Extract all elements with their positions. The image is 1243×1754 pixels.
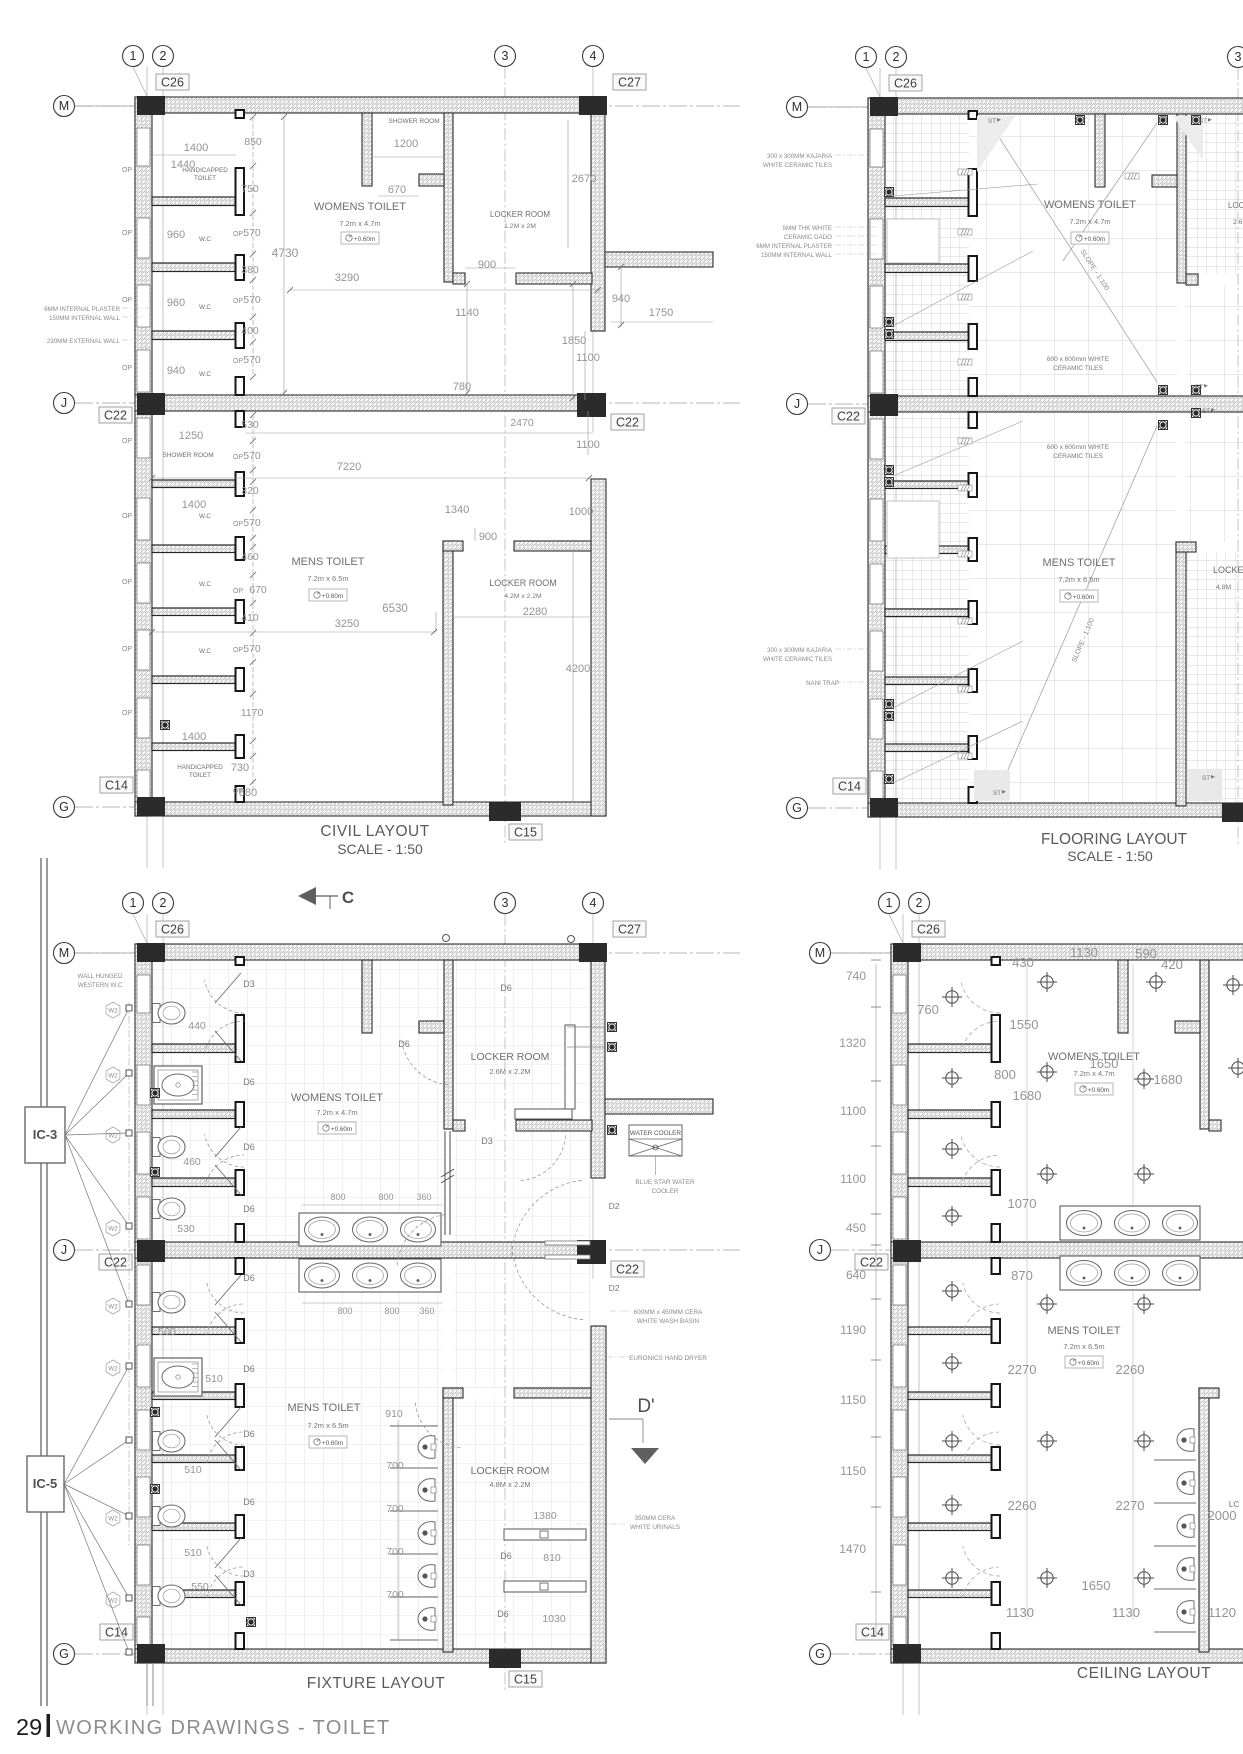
svg-text:400: 400 — [241, 325, 259, 337]
svg-text:ST: ST — [993, 790, 1001, 797]
svg-text:+0.60m: +0.60m — [1084, 236, 1105, 243]
svg-text:J: J — [61, 1243, 67, 1257]
margin notes (flooring) — [756, 153, 884, 687]
svg-text:4: 4 — [590, 49, 597, 63]
svg-text:1380: 1380 — [533, 1510, 557, 1522]
svg-text:800: 800 — [378, 1192, 393, 1202]
svg-text:410: 410 — [241, 612, 259, 624]
svg-text:OP: OP — [122, 230, 132, 237]
svg-text:800: 800 — [384, 1306, 399, 1316]
door thresholds (flooring) — [958, 169, 1139, 759]
svg-text:1470: 1470 — [839, 1542, 866, 1556]
svg-text:W.C: W.C — [199, 304, 211, 311]
svg-text:WALL HUNGED: WALL HUNGED — [78, 973, 123, 980]
svg-text:1190: 1190 — [840, 1323, 866, 1337]
section marker C (fixture) — [298, 887, 354, 909]
svg-text:2280: 2280 — [523, 606, 547, 618]
svg-text:SHOWER ROOM: SHOWER ROOM — [388, 118, 439, 125]
svg-text:ST: ST — [988, 118, 996, 125]
walls (ceiling) — [891, 944, 1243, 1663]
svg-text:D6: D6 — [243, 1497, 255, 1507]
svg-text:C27: C27 — [618, 923, 641, 937]
svg-text:W2: W2 — [108, 1304, 118, 1311]
toilets (fixture) — [153, 1002, 203, 1607]
slope lines (flooring) — [974, 116, 1222, 801]
walls (flooring) — [868, 98, 1243, 817]
svg-text:150MM INTERNAL WALL: 150MM INTERNAL WALL — [761, 252, 833, 259]
svg-text:D3: D3 — [481, 1136, 493, 1146]
svg-text:WOMENS TOILET: WOMENS TOILET — [1044, 199, 1136, 211]
svg-text:1400: 1400 — [184, 142, 208, 154]
svg-text:G: G — [815, 1647, 825, 1661]
svg-text:960: 960 — [167, 229, 185, 241]
svg-text:700: 700 — [386, 1546, 404, 1558]
svg-text:D6: D6 — [243, 1204, 255, 1214]
svg-text:OP: OP — [122, 167, 132, 174]
svg-text:G: G — [59, 800, 69, 814]
grid bubbles (ceiling) — [810, 893, 1243, 1665]
svg-text:750: 750 — [241, 183, 259, 195]
svg-text:W2: W2 — [108, 1008, 118, 1015]
svg-text:1130: 1130 — [1112, 1605, 1140, 1620]
svg-text:ST: ST — [1202, 408, 1210, 415]
svg-text:7.2m x 6.5m: 7.2m x 6.5m — [307, 574, 348, 583]
svg-text:2000: 2000 — [1208, 1508, 1237, 1523]
svg-text:570: 570 — [243, 227, 261, 239]
svg-text:WESTERN W.C: WESTERN W.C — [78, 982, 123, 989]
svg-text:1: 1 — [863, 50, 870, 64]
svg-text:150MM INTERNAL WALL: 150MM INTERNAL WALL — [49, 315, 121, 322]
svg-text:D6: D6 — [243, 1429, 255, 1439]
svg-text:3: 3 — [502, 49, 509, 63]
svg-text:D6: D6 — [500, 1551, 512, 1561]
svg-text:780: 780 — [453, 381, 471, 393]
svg-text:+0.60m: +0.60m — [1078, 1360, 1099, 1367]
wash basins (fixture) — [299, 1213, 441, 1292]
svg-text:430: 430 — [1012, 955, 1034, 970]
svg-text:ST: ST — [1199, 118, 1207, 125]
footer page title — [16, 1714, 391, 1740]
svg-text:2.6M x 2.2M: 2.6M x 2.2M — [489, 1067, 530, 1076]
svg-text:C26: C26 — [917, 923, 940, 937]
svg-text:1000: 1000 — [569, 506, 593, 518]
svg-text:510: 510 — [184, 1464, 202, 1476]
door jambs (civil) — [236, 110, 245, 802]
svg-text:590: 590 — [1135, 946, 1157, 961]
svg-text:C26: C26 — [894, 77, 917, 91]
svg-text:OP: OP — [233, 454, 243, 461]
svg-text:WORKING DRAWINGS - TOILET: WORKING DRAWINGS - TOILET — [56, 1717, 391, 1739]
svg-text:1030: 1030 — [542, 1613, 566, 1625]
drain leaders (flooring) — [893, 184, 1038, 783]
svg-text:1200: 1200 — [394, 138, 418, 150]
title (civil) — [320, 823, 429, 857]
ST markers (flooring) — [988, 118, 1215, 797]
svg-text:OP: OP — [122, 438, 132, 445]
svg-text:700: 700 — [386, 1589, 404, 1601]
svg-text:600 x 600mm WHITE: 600 x 600mm WHITE — [1047, 356, 1110, 363]
svg-text:570: 570 — [243, 294, 261, 306]
svg-text:D6: D6 — [243, 1364, 255, 1374]
room labels (civil) — [162, 118, 556, 779]
svg-text:OP: OP — [233, 588, 243, 595]
svg-text:1340: 1340 — [445, 504, 469, 516]
svg-text:C22: C22 — [837, 410, 860, 424]
svg-text:1170: 1170 — [241, 707, 264, 719]
svg-text:WOMENS TOILET: WOMENS TOILET — [314, 201, 406, 213]
dimension texts (civil) — [167, 136, 673, 799]
labels (ceiling) — [917, 945, 1239, 1620]
svg-text:D6: D6 — [398, 1039, 410, 1049]
svg-text:1750: 1750 — [649, 307, 673, 319]
svg-text:J: J — [794, 397, 800, 411]
svg-text:1140: 1140 — [455, 307, 479, 319]
svg-text:J: J — [61, 396, 67, 410]
svg-text:670: 670 — [249, 584, 267, 596]
svg-text:420: 420 — [1161, 957, 1183, 972]
OP labels (civil) — [122, 167, 132, 717]
svg-text:M: M — [59, 99, 69, 113]
svg-text:COOLER: COOLER — [652, 1188, 679, 1195]
svg-text:ST: ST — [1202, 775, 1210, 782]
svg-text:W.C: W.C — [199, 648, 211, 655]
svg-text:OP: OP — [233, 358, 243, 365]
svg-text:OP: OP — [233, 298, 243, 305]
corridor wall (fixture) — [129, 1002, 617, 1640]
grid bubbles (fixture) — [54, 893, 604, 1665]
svg-text:G: G — [792, 801, 802, 815]
svg-text:2670: 2670 — [572, 173, 596, 185]
left wall openings (ceiling) — [893, 975, 906, 1645]
svg-text:500: 500 — [158, 1326, 176, 1338]
svg-text:320: 320 — [241, 485, 259, 497]
svg-text:TOILET: TOILET — [189, 772, 211, 779]
svg-text:D2: D2 — [609, 1201, 620, 1211]
svg-text:230MM EXTERNAL WALL: 230MM EXTERNAL WALL — [47, 338, 121, 345]
svg-text:FIXTURE LAYOUT: FIXTURE LAYOUT — [307, 1675, 446, 1692]
svg-text:SCALE - 1:50: SCALE - 1:50 — [337, 841, 423, 857]
svg-text:7.2m x 4.7m: 7.2m x 4.7m — [1069, 217, 1110, 226]
svg-text:530: 530 — [241, 419, 259, 431]
svg-text:2: 2 — [160, 49, 167, 63]
svg-text:OP: OP — [233, 647, 243, 654]
svg-text:1120: 1120 — [1208, 1605, 1236, 1620]
svg-text:300 x 300MM KAJARIA: 300 x 300MM KAJARIA — [767, 647, 833, 654]
svg-text:2470: 2470 — [510, 417, 534, 429]
grid label boxes (ceiling) — [855, 921, 945, 1640]
svg-text:2.6M x: 2.6M x — [1233, 219, 1243, 226]
svg-text:7.2m x 4.7m: 7.2m x 4.7m — [339, 219, 380, 228]
svg-text:2: 2 — [916, 896, 923, 910]
svg-text:1550: 1550 — [1010, 1017, 1039, 1032]
svg-text:LC: LC — [1229, 1500, 1239, 1509]
svg-text:510: 510 — [205, 1373, 223, 1385]
svg-text:D6: D6 — [243, 1077, 255, 1087]
svg-text:+0.60m: +0.60m — [1088, 1087, 1109, 1094]
svg-text:29: 29 — [16, 1714, 42, 1740]
title (flooring) — [1041, 831, 1188, 864]
svg-text:WOMENS TOILET: WOMENS TOILET — [291, 1092, 383, 1104]
svg-text:6MM INTERNAL PLASTER: 6MM INTERNAL PLASTER — [756, 243, 832, 250]
svg-text:MENS TOILET: MENS TOILET — [1043, 557, 1116, 569]
labels (fixture) — [78, 973, 566, 1625]
svg-text:W2: W2 — [108, 1516, 118, 1523]
svg-text:1850: 1850 — [562, 335, 586, 347]
svg-text:1100: 1100 — [840, 1172, 866, 1186]
margin notes (civil) — [44, 306, 150, 345]
svg-text:1: 1 — [130, 896, 137, 910]
svg-text:EURONICS HAND DRYER: EURONICS HAND DRYER — [629, 1355, 707, 1362]
svg-text:1070: 1070 — [1008, 1196, 1037, 1211]
svg-text:900: 900 — [478, 259, 496, 271]
svg-text:1: 1 — [130, 49, 137, 63]
svg-text:OP: OP — [233, 521, 243, 528]
svg-text:800: 800 — [337, 1306, 352, 1316]
columns (fixture) — [137, 943, 607, 1668]
dim lines (civil) — [149, 114, 713, 802]
svg-text:380: 380 — [241, 264, 259, 276]
grid bubbles (flooring) — [787, 47, 1243, 819]
svg-text:810: 810 — [543, 1552, 561, 1564]
svg-text:900: 900 — [479, 531, 497, 543]
svg-text:LOCKER ROOM: LOCKER ROOM — [471, 1465, 550, 1477]
svg-text:+0.60m: +0.60m — [322, 1440, 343, 1447]
svg-text:OP: OP — [233, 231, 243, 238]
grid lines (civil) — [75, 67, 740, 868]
IC boxes (fixture) — [25, 1005, 132, 1655]
svg-text:W.C: W.C — [199, 236, 211, 243]
door jambs (fixture) — [236, 957, 245, 1649]
door jambs (flooring) — [969, 111, 978, 803]
svg-text:NANI TRAP: NANI TRAP — [806, 680, 839, 687]
svg-text:760: 760 — [917, 1002, 939, 1017]
svg-text:WHITE CERAMIC TILES: WHITE CERAMIC TILES — [763, 162, 832, 169]
svg-text:670: 670 — [388, 184, 406, 196]
svg-text:7.2m x 6.5m: 7.2m x 6.5m — [307, 1421, 348, 1430]
svg-text:1130: 1130 — [1070, 945, 1098, 960]
svg-text:C22: C22 — [104, 409, 127, 423]
urinals (fixture) — [390, 1426, 438, 1640]
svg-text:MENS TOILET: MENS TOILET — [1048, 1325, 1121, 1337]
svg-text:1130: 1130 — [1006, 1605, 1034, 1620]
svg-text:1650: 1650 — [1082, 1578, 1111, 1593]
svg-text:M: M — [792, 100, 802, 114]
svg-text:4.2M x 2.2M: 4.2M x 2.2M — [504, 593, 542, 600]
svg-text:730: 730 — [231, 762, 249, 774]
svg-text:740: 740 — [846, 969, 866, 983]
svg-text:WOMENS TOILET: WOMENS TOILET — [1048, 1051, 1140, 1063]
svg-text:700: 700 — [386, 1460, 404, 1472]
svg-text:1400: 1400 — [182, 731, 206, 743]
svg-text:7.2m x 6.5m: 7.2m x 6.5m — [1063, 1342, 1104, 1351]
svg-text:800: 800 — [330, 1192, 345, 1202]
svg-text:7220: 7220 — [337, 461, 361, 473]
svg-text:SCALE - 1:50: SCALE - 1:50 — [1067, 848, 1153, 864]
svg-text:MENS TOILET: MENS TOILET — [292, 556, 365, 568]
svg-text:W2: W2 — [108, 1226, 118, 1233]
svg-text:4: 4 — [590, 896, 597, 910]
svg-text:W.C: W.C — [199, 581, 211, 588]
svg-text:LOCKER ROOM: LOCKER ROOM — [471, 1051, 550, 1063]
svg-text:D6: D6 — [500, 983, 512, 993]
svg-text:700: 700 — [386, 1503, 404, 1515]
svg-text:7.2m x 4.7m: 7.2m x 4.7m — [1073, 1069, 1114, 1078]
svg-text:OP: OP — [122, 297, 132, 304]
svg-text:W2: W2 — [108, 1073, 118, 1080]
svg-text:OP: OP — [122, 646, 132, 653]
svg-text:OP: OP — [122, 710, 132, 717]
svg-text:W.C: W.C — [199, 513, 211, 520]
svg-text:IC-3: IC-3 — [33, 1127, 58, 1142]
svg-text:OP: OP — [122, 365, 132, 372]
section marker D' (fixture) — [609, 1396, 659, 1464]
svg-text:C14: C14 — [861, 1626, 884, 1640]
svg-text:4200: 4200 — [566, 663, 590, 675]
svg-text:W2: W2 — [108, 1598, 118, 1605]
svg-text:2: 2 — [160, 896, 167, 910]
svg-text:+0.60m: +0.60m — [322, 593, 343, 600]
svg-text:300 x 300MM KAJARIA: 300 x 300MM KAJARIA — [767, 153, 833, 160]
svg-text:C26: C26 — [161, 76, 184, 90]
svg-text:WHITE URINALS: WHITE URINALS — [630, 1524, 680, 1531]
svg-text:1150: 1150 — [840, 1464, 866, 1478]
svg-text:C15: C15 — [514, 826, 537, 840]
svg-text:1320: 1320 — [839, 1036, 866, 1050]
svg-text:C22: C22 — [616, 416, 639, 430]
grid lines (fixture) — [75, 914, 740, 1715]
wall vents (fixture) — [443, 935, 575, 943]
svg-text:D2: D2 — [609, 1283, 620, 1293]
svg-text:2270: 2270 — [1008, 1362, 1037, 1377]
svg-text:2260: 2260 — [1008, 1498, 1037, 1513]
svg-text:M: M — [59, 946, 69, 960]
right margin notes (fixture) — [576, 1125, 707, 1531]
stall partitions (civil) — [152, 197, 236, 751]
svg-text:6MM INTERNAL PLASTER: 6MM INTERNAL PLASTER — [44, 306, 120, 313]
floor tile fills (flooring) — [885, 114, 1243, 803]
svg-text:M: M — [815, 946, 825, 960]
walls (civil) — [135, 97, 713, 816]
wash basins (ceiling) — [1060, 1206, 1200, 1290]
grid lines (flooring) — [808, 68, 1243, 869]
construction lines (ceiling) — [1027, 964, 1133, 1620]
stall partitions (fixture) — [152, 1044, 236, 1598]
svg-text:J: J — [817, 1243, 823, 1257]
svg-text:1: 1 — [886, 896, 893, 910]
svg-text:6530: 6530 — [382, 603, 408, 615]
svg-text:450: 450 — [846, 1221, 866, 1235]
svg-text:FLOORING LAYOUT: FLOORING LAYOUT — [1041, 831, 1188, 848]
svg-text:D6: D6 — [243, 1273, 255, 1283]
svg-text:2270: 2270 — [1116, 1498, 1145, 1513]
svg-text:BLUE STAR WATER: BLUE STAR WATER — [635, 1179, 695, 1186]
shaft boxes (flooring) — [887, 219, 939, 558]
svg-text:OP: OP — [122, 513, 132, 520]
columns (ceiling) — [893, 943, 1243, 1668]
svg-text:IC-5: IC-5 — [33, 1476, 58, 1491]
svg-text:D': D' — [637, 1396, 654, 1417]
svg-text:4.8M x 2.2M: 4.8M x 2.2M — [489, 1480, 530, 1489]
svg-text:640: 640 — [846, 1268, 866, 1282]
floor tiles (fixture) — [152, 960, 591, 1649]
svg-text:C22: C22 — [104, 1256, 127, 1270]
svg-text:C14: C14 — [838, 780, 861, 794]
svg-text:TOILET: TOILET — [194, 175, 216, 182]
svg-text:CERAMIC TILES: CERAMIC TILES — [1053, 365, 1103, 372]
left dim chain (ceiling) — [839, 960, 881, 1637]
W2 tags (fixture) — [106, 1002, 120, 1608]
svg-text:3250: 3250 — [335, 618, 359, 630]
svg-text:ST: ST — [1195, 384, 1203, 391]
svg-text:1400: 1400 — [182, 499, 206, 511]
left wall openings (civil) — [137, 128, 150, 798]
svg-text:550: 550 — [191, 1581, 209, 1593]
svg-text:1150: 1150 — [840, 1393, 866, 1407]
svg-text:850: 850 — [244, 136, 262, 148]
grid bubbles (civil) — [54, 46, 604, 818]
svg-text:CIVIL LAYOUT: CIVIL LAYOUT — [320, 823, 429, 840]
svg-text:+0.60m: +0.60m — [354, 236, 375, 243]
svg-text:C22: C22 — [616, 1263, 639, 1277]
svg-text:4730: 4730 — [272, 246, 299, 260]
svg-text:600MM x 450MM CERA: 600MM x 450MM CERA — [634, 1309, 704, 1316]
svg-text:W2: W2 — [108, 1366, 118, 1373]
svg-text:CERAMIC TILES: CERAMIC TILES — [1053, 453, 1103, 460]
svg-text:1100: 1100 — [840, 1104, 866, 1118]
svg-text:7.2m x 4.7m: 7.2m x 4.7m — [316, 1108, 357, 1117]
svg-text:3: 3 — [502, 896, 509, 910]
svg-text:G: G — [59, 1647, 69, 1661]
svg-text:960: 960 — [167, 297, 185, 309]
grid label boxes (fixture) — [99, 921, 646, 1687]
locker cabinets (fixture) — [504, 1025, 586, 1592]
svg-text:2: 2 — [893, 50, 900, 64]
svg-text:+0.60m: +0.60m — [1073, 594, 1094, 601]
door jambs (ceiling) — [992, 957, 1001, 1649]
svg-text:570: 570 — [243, 643, 261, 655]
svg-text:4.8M: 4.8M — [1216, 584, 1231, 591]
svg-text:530: 530 — [177, 1223, 195, 1235]
svg-text:D3: D3 — [243, 979, 255, 989]
urinals (ceiling) — [1154, 1429, 1196, 1632]
section lines (fixture) — [41, 858, 153, 1706]
svg-text:940: 940 — [612, 293, 630, 305]
svg-text:C14: C14 — [105, 779, 128, 793]
svg-text:1680: 1680 — [1154, 1072, 1183, 1087]
svg-text:CEILING LAYOUT: CEILING LAYOUT — [1077, 1665, 1211, 1682]
svg-text:W.C: W.C — [199, 371, 211, 378]
svg-text:5MM THK WHITE: 5MM THK WHITE — [783, 225, 832, 232]
svg-text:C27: C27 — [618, 76, 641, 90]
svg-text:D6: D6 — [497, 1609, 509, 1619]
svg-text:570: 570 — [243, 517, 261, 529]
svg-text:LOCKER RO: LOCKER RO — [1228, 201, 1243, 210]
svg-text:LOCKER ROOM: LOCKER ROOM — [489, 578, 557, 588]
columns (civil) — [137, 96, 607, 821]
room labels (flooring) — [1043, 199, 1243, 602]
svg-text:460: 460 — [183, 1156, 201, 1168]
ceiling lights (ceiling) — [942, 972, 1243, 1588]
columns (flooring) — [870, 97, 1243, 822]
grid label boxes (flooring) — [832, 75, 922, 794]
svg-text:870: 870 — [1011, 1268, 1033, 1283]
svg-text:WHITE WASH BASIN: WHITE WASH BASIN — [637, 1318, 700, 1325]
svg-text:3: 3 — [1235, 50, 1242, 64]
svg-text:800: 800 — [994, 1067, 1016, 1082]
svg-text:510: 510 — [184, 1547, 202, 1559]
svg-text:HANDICAPPED: HANDICAPPED — [177, 764, 223, 771]
svg-text:C14: C14 — [105, 1626, 128, 1640]
